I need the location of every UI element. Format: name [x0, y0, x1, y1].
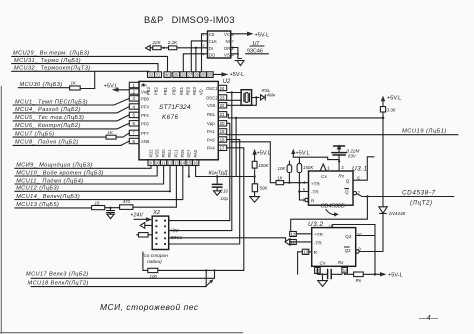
svg-text:U3.2: U3.2 — [308, 221, 324, 228]
svg-text:HA: HA — [141, 83, 147, 88]
input arrow X2 left — [140, 223, 152, 229]
svg-text:+TR: +TR — [311, 181, 320, 186]
svg-text:КонТрД: КонТрД — [209, 170, 228, 176]
U3.1 pin 4 +TR — [303, 180, 321, 186]
node MCU11 label — [15, 166, 164, 185]
MCU left pin 2 — [129, 89, 148, 95]
svg-text:10µ: 10µ — [221, 196, 229, 201]
node MCU12 label — [15, 166, 171, 193]
wire branch MCU32 down — [94, 71, 96, 88]
node MCU10 label — [15, 166, 157, 177]
svg-text:10: 10 — [357, 232, 362, 237]
svg-text:REL: REL — [207, 112, 216, 117]
svg-text:+5V-L: +5V-L — [230, 72, 245, 78]
svg-text:MCU19 (ЛцБ1): MCU19 (ЛцБ1) — [402, 129, 447, 135]
svg-text:PD6: PD6 — [180, 149, 185, 158]
svg-text:PB1: PB1 — [163, 86, 168, 95]
U3.2 pin 11 -TR — [290, 240, 323, 246]
resistor 3.3K pullup — [380, 107, 395, 118]
svg-text:29: 29 — [174, 73, 179, 78]
pin1 corner dot — [142, 84, 145, 87]
svg-text:Rx: Rx — [338, 174, 344, 180]
svg-text:MCU12 (ЛцБ3): MCU12 (ЛцБ3) — [16, 186, 59, 192]
node MCU18 label — [28, 280, 206, 286]
U7 pin 4 DO — [202, 52, 215, 57]
svg-text:PA4: PA4 — [207, 146, 215, 151]
U7 pin 8 VCC — [224, 32, 247, 37]
svg-text:MCU6_ Контрл(ЛцБ2): MCU6_ Контрл(ЛцБ2) — [15, 123, 81, 129]
svg-text:B&P DIMSO9-IM03: B&P DIMSO9-IM03 — [144, 15, 235, 25]
MCU bottom pin 15 — [186, 149, 192, 166]
U7 pin 7 NC — [226, 39, 234, 44]
node MCU6 label — [13, 123, 129, 129]
svg-text:17: 17 — [220, 146, 225, 151]
svg-text:Vpp: Vpp — [207, 121, 215, 126]
resistor 10K — [278, 161, 292, 183]
MCU right pin 22 VSS — [207, 103, 227, 109]
capacitor C16 — [212, 177, 228, 202]
svg-text:MCU14_ Велкч(ЛцБ3): MCU14_ Велкч(ЛцБ3) — [16, 194, 80, 200]
svg-text:8: 8 — [232, 32, 234, 36]
node KonTrD label — [209, 170, 228, 177]
svg-text:Rx: Rx — [338, 260, 344, 266]
svg-text:Q: Q — [346, 178, 350, 183]
svg-text:6: 6 — [232, 46, 234, 50]
crystal RSL box — [241, 90, 252, 106]
svg-text:28: 28 — [181, 73, 186, 78]
U3.1 pin 3 R — [299, 197, 315, 203]
U3.2 pin 13 R — [298, 249, 318, 274]
U3.2 pin 10 Q2 — [345, 232, 375, 239]
svg-text:150K: 150K — [303, 165, 314, 170]
wire OSC1 to crystal — [227, 92, 241, 94]
MCU bottom pin 11 — [160, 149, 166, 166]
MCU left pin 6 — [129, 121, 149, 127]
svg-text:MCU1_ Темп ПЕС(ЛцБ3): MCU1_ Темп ПЕС(ЛцБ3) — [15, 99, 88, 105]
wire X2 ВЗС1 — [169, 235, 286, 242]
svg-text:RE0: RE0 — [186, 86, 191, 95]
svg-text:2.2K: 2.2K — [167, 40, 178, 45]
+5V-L arrow bottom right — [380, 272, 403, 279]
wire from rail down — [235, 118, 237, 177]
svg-text:25: 25 — [201, 73, 206, 78]
svg-text:+5V.L: +5V.L — [257, 151, 271, 157]
svg-text:Q2: Q2 — [345, 234, 352, 239]
svg-text:X2: X2 — [152, 210, 161, 216]
wire DI down — [195, 48, 197, 72]
ground at U7 — [235, 59, 244, 66]
svg-text:4: 4 — [202, 53, 204, 57]
wire X2 Vpp to U3.2 — [169, 227, 232, 232]
svg-text:ST71F324: ST71F324 — [159, 104, 191, 111]
wire pin15 to KonTrD wire — [188, 166, 190, 177]
svg-text:+24V: +24V — [130, 213, 144, 219]
svg-text:PFV: PFV — [141, 105, 149, 110]
wire pin20 Vpp down to X2 — [169, 123, 230, 220]
MCU top pin 29 — [172, 72, 180, 95]
resistor 22K — [152, 40, 162, 50]
svg-text:PD0: PD0 — [161, 149, 166, 158]
svg-text:18: 18 — [220, 137, 225, 142]
svg-text:МСИ, сторожевой пес: МСИ, сторожевой пес — [100, 302, 199, 312]
svg-text:AN5: AN5 — [141, 139, 150, 144]
label +24V with arrow — [130, 213, 152, 222]
resistor 1K MCU30 — [70, 81, 95, 90]
+5V-L arrow top — [222, 72, 245, 78]
MCU left pin 1 — [129, 82, 147, 88]
wire crystal node down OSC to X2 Vpp row — [231, 93, 233, 231]
MCU right pin 23 OSC2 — [206, 95, 227, 101]
svg-text:16: 16 — [193, 161, 198, 166]
node MCU1 label — [13, 98, 129, 105]
MCU left pin 8 — [129, 138, 150, 144]
MCU right pin 18 PA6 — [207, 137, 227, 143]
svg-text:100K: 100K — [258, 163, 269, 168]
U3.2 Cx Rx labels — [320, 260, 345, 267]
svg-text:+5V.L: +5V.L — [387, 96, 401, 102]
U3.1 pin 1 arrow — [320, 164, 330, 171]
svg-text:24: 24 — [220, 86, 225, 91]
svg-text:470: 470 — [123, 199, 131, 204]
svg-text:3: 3 — [202, 44, 204, 48]
svg-text:22: 22 — [220, 103, 225, 108]
svg-text:21: 21 — [220, 112, 225, 117]
svg-text:14: 14 — [180, 161, 185, 166]
U7 pin 1 CS — [202, 32, 214, 37]
connector X2 — [152, 210, 169, 249]
node MCU32 label — [12, 66, 149, 72]
svg-text:12: 12 — [168, 161, 173, 166]
svg-text:14: 14 — [343, 268, 348, 273]
svg-text:VD: VD — [199, 89, 204, 95]
svg-text:Cx: Cx — [321, 174, 327, 180]
MCU right pin 20 Vpp — [207, 121, 227, 127]
svg-text:13: 13 — [174, 161, 179, 166]
U3.1 pin 6 Q — [346, 157, 374, 184]
+5V-L arrow at MCU pin1 — [104, 84, 130, 92]
svg-text:50K: 50K — [260, 185, 269, 190]
ground at 50K — [250, 197, 260, 203]
svg-text:RE2: RE2 — [192, 86, 197, 95]
svg-text:DO: DO — [209, 52, 216, 57]
svg-text:MCU10_ Воде кротен (ЛцБ3): MCU10_ Воде кротен (ЛцБ3) — [16, 170, 104, 176]
capacitor 0.22M 63V — [332, 145, 360, 160]
resistor 50K vertical — [252, 184, 268, 197]
svg-text:30: 30 — [165, 73, 170, 78]
svg-text:15: 15 — [315, 268, 320, 273]
svg-text:MCU32_ Термоокт(ЛцТ3): MCU32_ Термоокт(ЛцТ3) — [14, 66, 91, 72]
svg-text:11: 11 — [161, 161, 166, 166]
svg-text:3.3К: 3.3К — [387, 107, 396, 112]
resistor 100 — [148, 268, 244, 279]
label RSL 4MH with mark — [261, 88, 276, 100]
MCU top pin 28 — [179, 72, 187, 95]
svg-text:7: 7 — [232, 39, 234, 43]
svg-text:Vpp: Vpp — [171, 227, 180, 232]
wire — [150, 47, 153, 49]
svg-text:U2: U2 — [223, 79, 231, 85]
resistor 470 — [120, 166, 177, 210]
input arrow U3.2 — [285, 239, 312, 246]
svg-text:(со сторон: (со сторон — [143, 253, 169, 259]
wire to DI — [177, 47, 208, 49]
svg-text:PB0: PB0 — [172, 86, 177, 95]
MCU bottom pin 12 — [167, 149, 173, 166]
wire CS down — [202, 34, 204, 72]
MCU U2 body ST71F324 — [139, 81, 218, 159]
wire +5V to cap — [293, 157, 339, 171]
svg-text:Cx: Cx — [320, 261, 326, 267]
MCU bottom pin 14 — [180, 149, 186, 166]
wire ORG/VSS to ground — [237, 48, 239, 59]
svg-text:MCU30 (ЛцБ3): MCU30 (ЛцБ3) — [20, 82, 63, 88]
node MCU17 label — [26, 272, 215, 279]
svg-text:PB2: PB2 — [154, 86, 159, 95]
wire REL rail — [227, 114, 385, 119]
svg-text:RE1: RE1 — [179, 86, 184, 95]
node junction — [163, 47, 165, 49]
wire diode branch down — [382, 118, 384, 207]
node MCU13 label — [15, 202, 92, 208]
svg-text:Rк: Rк — [356, 278, 362, 283]
resistor 150K — [297, 157, 314, 183]
node MCU8 label — [13, 140, 129, 146]
scan edge bottom — [0, 332, 243, 334]
node MCU30 label — [18, 82, 69, 88]
svg-text:PA0: PA0 — [193, 149, 198, 157]
MCU bottom pin 13 — [173, 149, 179, 166]
wire vertical from 100 line down — [205, 270, 207, 286]
svg-text:—4—: —4— — [418, 313, 439, 322]
svg-text:100: 100 — [150, 274, 158, 279]
svg-text:PE7: PE7 — [186, 149, 191, 158]
ground at C16 — [213, 187, 221, 195]
wire 100 node to MCU17 line — [214, 270, 216, 278]
svg-text:Q: Q — [345, 190, 349, 195]
MCU left pin 4 — [129, 104, 149, 110]
wire DO down — [183, 54, 204, 72]
svg-text:OSC1: OSC1 — [206, 86, 218, 91]
svg-text:U3.1: U3.1 — [352, 165, 368, 172]
node MCU5 label — [13, 115, 129, 121]
MCU top pin 26 — [192, 72, 200, 95]
+5V-L arrow above 3.3K — [381, 96, 401, 107]
node MCU29 label — [12, 51, 168, 72]
svg-text:22K: 22K — [152, 40, 162, 45]
node MCU7 label — [13, 131, 106, 137]
node CD4538-7 output label — [402, 189, 436, 206]
label CD4538Б — [321, 203, 346, 216]
svg-text:MCU13 (ЛцБ5): MCU13 (ЛцБ5) — [16, 202, 59, 208]
svg-text:31: 31 — [156, 73, 161, 78]
svg-text:CD4538-7: CD4538-7 — [402, 189, 436, 196]
svg-text:23: 23 — [220, 95, 225, 100]
MCU bottom pin 10 — [154, 149, 160, 166]
svg-text:-TR: -TR — [311, 190, 319, 195]
top pin Б5 box — [207, 72, 214, 78]
resistor 1K watchdog input — [276, 176, 309, 185]
U3.2 pin 15 — [315, 266, 328, 274]
node MCU9 label — [15, 163, 151, 169]
MCU bottom pin 9 — [148, 149, 154, 166]
svg-text:+TR: +TR — [314, 232, 323, 237]
capacitor U3.2 Cx — [328, 270, 342, 279]
input arrow (left open triangle) — [146, 45, 151, 50]
wire Qbar to U3.2 +TR loop — [291, 195, 369, 230]
resistor 100K vertical — [252, 161, 269, 184]
svg-text:+5V.L: +5V.L — [296, 151, 310, 157]
resistor 2.2K — [167, 40, 178, 50]
svg-text:CD4538Б: CD4538Б — [321, 203, 346, 209]
svg-text:15: 15 — [187, 161, 192, 166]
svg-text:MCU18 ВелкЛ(ЛцТ2): MCU18 ВелкЛ(ЛцТ2) — [28, 280, 89, 286]
svg-text:MCU8_ Падня (ЛцБ2): MCU8_ Падня (ЛцБ2) — [15, 140, 79, 146]
op IC U3.2 body — [308, 221, 356, 266]
svg-text:13: 13 — [303, 250, 308, 255]
ground at U3.2 Cx — [318, 273, 328, 286]
svg-text:Q2: Q2 — [345, 248, 352, 253]
svg-text:63V: 63V — [348, 153, 357, 158]
+5V-L arrow at 100K — [252, 149, 270, 162]
svg-text:MCU7 (ЛцБ5): MCU7 (ЛцБ5) — [15, 131, 55, 137]
svg-text:-TR: -TR — [314, 240, 322, 245]
wire pin22 loop under crystal — [227, 98, 257, 106]
svg-text:PD2: PD2 — [149, 149, 154, 158]
svg-text:VSS: VSS — [155, 149, 160, 158]
wire pin16 to KonTrD node — [196, 166, 255, 177]
svg-text:VSS: VSS — [207, 103, 216, 108]
diode 1N4448 — [379, 207, 406, 252]
svg-text:27: 27 — [188, 73, 193, 78]
wire — [161, 47, 168, 49]
op IC U7 93C46 body — [208, 31, 231, 58]
wire pin17 down to bottom rail — [227, 148, 244, 271]
resistor Rx — [354, 272, 380, 283]
svg-text:MCU4_ Разход (ЛцБ2): MCU4_ Разход (ЛцБ2) — [15, 107, 81, 113]
svg-text:4Мн: 4Мн — [267, 92, 276, 97]
MCU top pin 32 — [146, 72, 155, 95]
MCU left pin 7 — [129, 130, 149, 136]
svg-text:19: 19 — [220, 129, 225, 134]
svg-text:PF7: PF7 — [141, 131, 149, 136]
svg-text:(ЛцТ2): (ЛцТ2) — [410, 200, 433, 207]
svg-text:пайки): пайки) — [147, 258, 162, 265]
svg-text:CS: CS — [209, 32, 215, 37]
svg-text:12: 12 — [291, 232, 296, 237]
U7 pin 5 VSS — [224, 52, 238, 57]
svg-text:20: 20 — [220, 121, 225, 126]
svg-text:1К: 1К — [277, 176, 282, 181]
svg-text:MCU29_ Вн.терм. (ЛцБ3): MCU29_ Вн.терм. (ЛцБ3) — [13, 51, 90, 57]
wire diagonal arrow MCU18 to node — [206, 279, 214, 286]
svg-text:CLK: CLK — [209, 39, 217, 44]
U7 pin 6 ORG — [224, 46, 238, 51]
U3.1 pin 5 -TR — [298, 183, 319, 200]
U7 pin 2 CLK — [201, 39, 217, 44]
wire Б5 to +5V — [213, 73, 221, 75]
svg-text:+5V-L: +5V-L — [388, 273, 403, 279]
svg-text:MCU17 Велк3 (ЛцБ2): MCU17 Велк3 (ЛцБ2) — [26, 272, 89, 278]
resistor at X2 left — [137, 233, 153, 237]
svg-text:1N4448: 1N4448 — [389, 211, 406, 217]
svg-text:K676: K676 — [162, 114, 179, 121]
MCU top pin 25 — [199, 72, 207, 95]
svg-text:PA6: PA6 — [207, 137, 215, 142]
svg-text:Б5: Б5 — [207, 73, 213, 78]
svg-text:PE1: PE1 — [167, 149, 172, 158]
MCU right pin 24 OSC1 — [206, 85, 227, 91]
U3.1 Cx Rx labels — [321, 174, 345, 181]
svg-text:PF6: PF6 — [141, 121, 149, 126]
node MCU4 label — [13, 107, 129, 114]
U3.1 pin 7 Qbar — [345, 189, 454, 197]
label 93C46 — [246, 48, 269, 54]
svg-text:+5V-L: +5V-L — [255, 33, 270, 39]
MCU top pin 30 — [163, 72, 171, 95]
node MCU31 label — [12, 58, 158, 72]
MCU top pin 27 — [186, 72, 194, 95]
wire branch to 1K watchdog — [232, 142, 276, 183]
MCU right pin 17 PA4 — [207, 145, 227, 151]
wire CLK down — [191, 41, 202, 72]
+5V-L arrow at U3.1 — [291, 149, 310, 158]
svg-text:OSC2: OSC2 — [206, 95, 218, 100]
svg-text:10: 10 — [155, 161, 160, 166]
svg-text:DI: DI — [209, 46, 213, 51]
node MCU19 rail — [227, 129, 458, 135]
node MCU14 label — [15, 166, 183, 200]
label U7 — [250, 41, 264, 47]
svg-text:32: 32 — [149, 73, 154, 78]
svg-text:1: 1 — [202, 33, 204, 37]
MCU left pin 5 — [129, 112, 149, 118]
MCU left pin 3 — [129, 96, 149, 102]
label (со сторон пайки) — [143, 253, 169, 265]
MCU right pin 21 REL — [207, 112, 227, 118]
svg-text:MCU11_ Падмя (ЛцБ4): MCU11_ Падмя (ЛцБ4) — [16, 178, 83, 184]
resistor 16 MCU13 — [92, 200, 120, 209]
MCU bottom pin 16 — [192, 149, 198, 165]
svg-text:26: 26 — [194, 73, 199, 78]
U3.2 pin 16 — [329, 224, 375, 274]
svg-text:PC1: PC1 — [174, 149, 179, 158]
capacitor at MCU13 line — [107, 208, 115, 219]
+5V-L arrow at U7 VCC — [247, 32, 269, 39]
svg-text:PA1: PA1 — [207, 129, 215, 134]
U7 pin 3 DI — [202, 44, 213, 51]
svg-text:PB0: PB0 — [141, 97, 150, 102]
U3.2 pin 14 — [342, 266, 354, 274]
node on DI wire — [195, 47, 197, 49]
svg-text:MCU5_ Тес тов.(ЛцБ3): MCU5_ Тес тов.(ЛцБ3) — [15, 115, 84, 121]
scan edge left — [0, 86, 2, 334]
svg-text:PF4: PF4 — [141, 113, 149, 118]
svg-text:МСИ9_ Мощндция (ЛцБ3): МСИ9_ Мощндция (ЛцБ3) — [16, 163, 92, 169]
wire X2 to 100 resistor — [143, 252, 148, 270]
svg-text:Vss: Vss — [141, 90, 148, 95]
svg-text:16: 16 — [95, 200, 100, 205]
wire OSC2 to crystal — [227, 99, 241, 101]
resistor 1K MCU7 — [106, 130, 129, 139]
MCU right pin 19 PA1 — [207, 129, 227, 135]
svg-text:10К: 10К — [278, 166, 286, 171]
U3.2 pin 12 +TR — [290, 232, 324, 238]
MCU top pin 31 — [154, 72, 162, 95]
wire crystal out — [252, 96, 259, 98]
U3.2 pin 9 Q2bar — [344, 246, 383, 253]
op IC U3.1 CD4538 body — [309, 165, 368, 205]
wire X2 row5 to pin18 vertical — [169, 140, 240, 245]
